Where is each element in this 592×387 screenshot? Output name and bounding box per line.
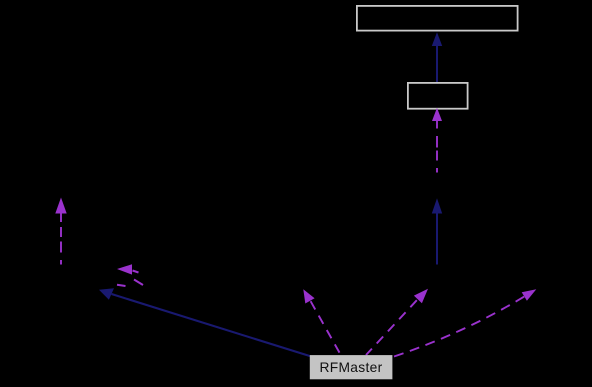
usage arrow: RFMaster to hidden node (dashed darkorchid, steep left) <box>303 289 341 355</box>
inheritance arrow: middle box to top box (solid midnightblue) <box>432 32 442 82</box>
node RFMaster (current class, grey filled) <box>310 356 392 379</box>
usage arrow: RFMaster to hidden node (dashed darkorchid, up-right) <box>366 289 428 355</box>
node box middle (intermediate class) <box>408 83 468 109</box>
usage arrow fragment: small dashed arrowhead pointing left (left cluster) <box>117 264 143 286</box>
inheritance arrow: RFMaster to hidden node (solid midnightblue diagonal) <box>99 288 311 356</box>
usage arrow: hidden node to middle box (dashed darkorchid, vertical) <box>432 108 442 173</box>
usage arrow: RFMaster to hidden node (dashed darkorchid, far right, curved) <box>394 289 536 356</box>
inheritance arrow: hidden node to hidden node (solid midnightblue, middle column) <box>432 198 442 264</box>
svg-text:RFMaster: RFMaster <box>320 360 383 375</box>
usage arrow: hidden node to hidden node (dashed darkorchid, left column) <box>55 198 66 265</box>
node box top (base class) <box>357 6 518 31</box>
